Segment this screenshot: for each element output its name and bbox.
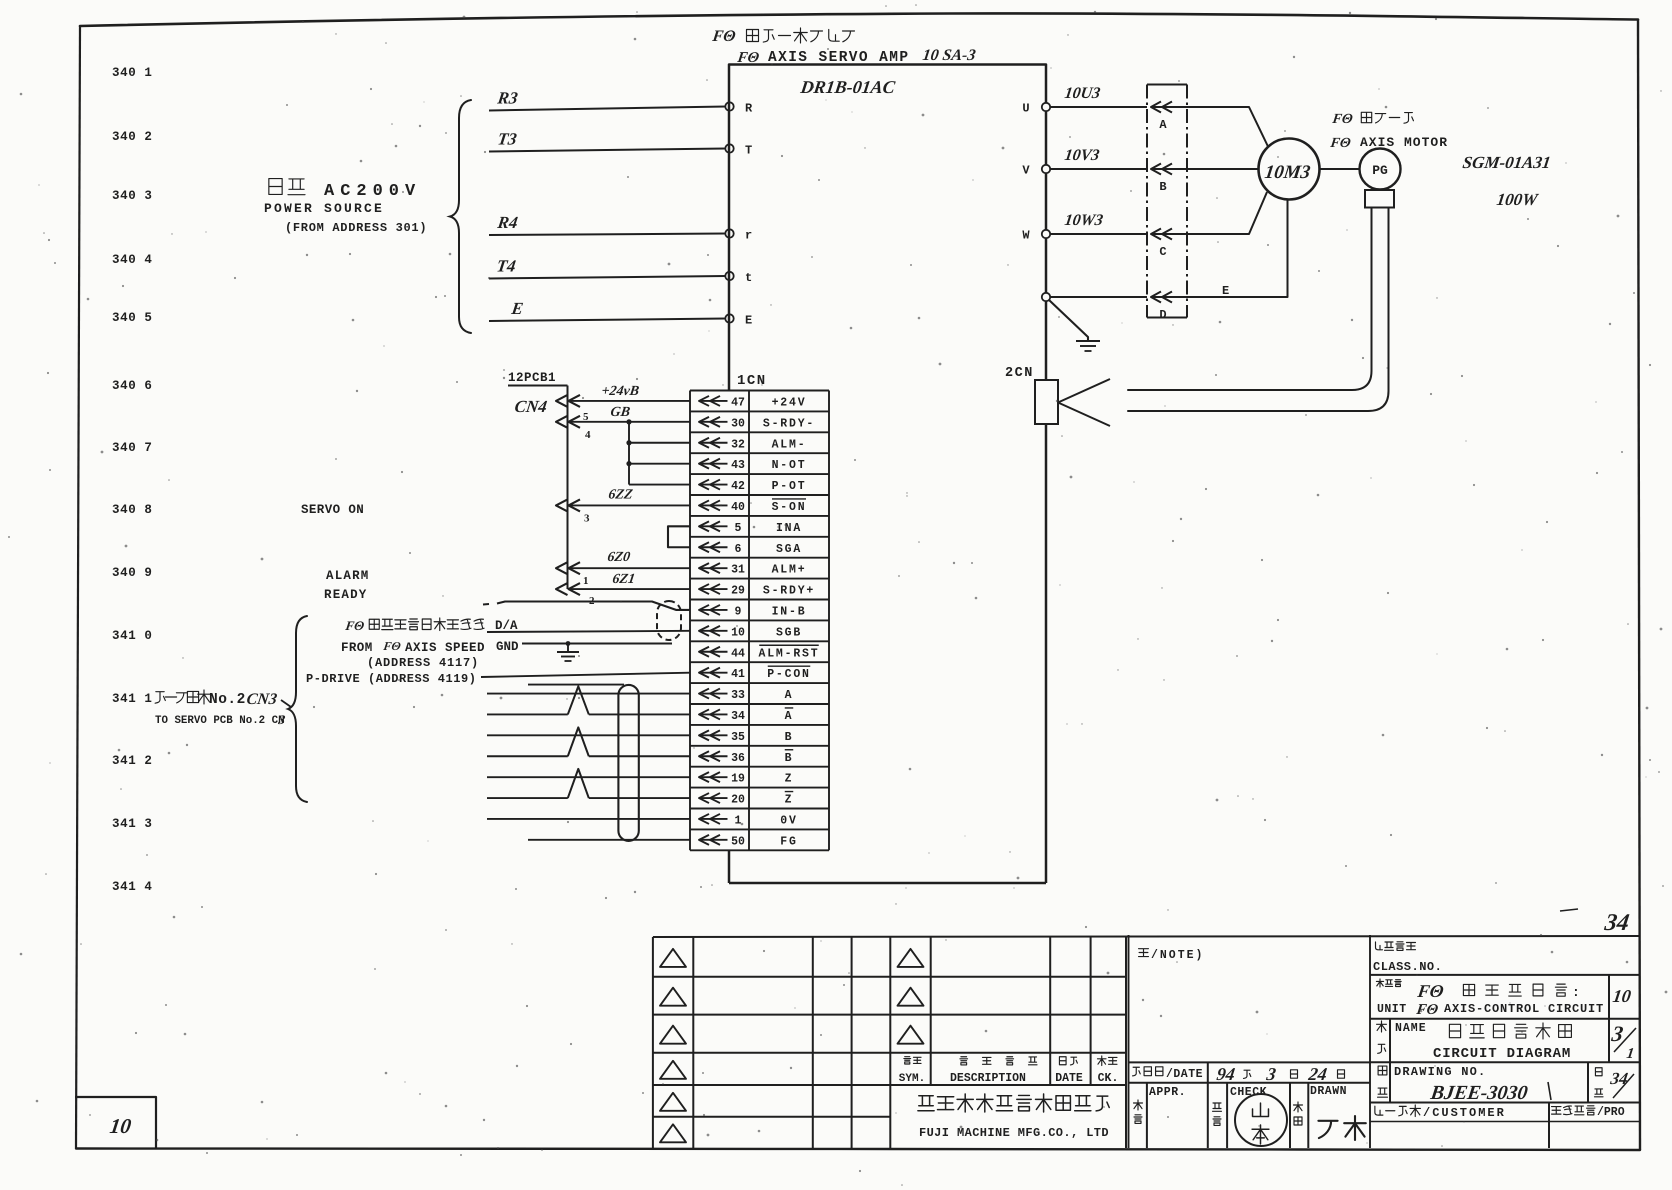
svg-text:/DATE: /DATE xyxy=(1166,1068,1203,1081)
wire 6ZZ to pin 40 S-ON xyxy=(569,504,690,506)
wire 10W3 xyxy=(1050,233,1147,235)
svg-text:SGA: SGA xyxy=(776,543,802,556)
svg-text:(FROM ADDRESS 301): (FROM ADDRESS 301) xyxy=(285,221,427,235)
svg-text:FΘ: FΘ xyxy=(1414,1002,1439,1018)
svg-text:TO SERVO PCB No.2 CN: TO SERVO PCB No.2 CN xyxy=(155,715,285,727)
svg-text:6ZZ: 6ZZ xyxy=(607,487,634,503)
svg-text:341 2: 341 2 xyxy=(112,754,153,768)
svg-text:FΘ: FΘ xyxy=(344,618,366,633)
svg-text:B: B xyxy=(1159,180,1166,194)
svg-text:FΘ: FΘ xyxy=(710,28,736,45)
svg-text:2CN: 2CN xyxy=(1005,366,1034,381)
1CN pin 47 +24V xyxy=(699,400,728,402)
svg-text:341 1: 341 1 xyxy=(112,692,153,706)
svg-text:IN-B: IN-B xyxy=(772,605,807,618)
svg-text:V: V xyxy=(1022,164,1030,178)
1CN pin 44 ALM-RST xyxy=(699,651,728,653)
wire R4 to terminal r xyxy=(489,234,726,236)
label to servo PCB No.2 CN3 xyxy=(155,692,165,703)
svg-text:100W: 100W xyxy=(1495,190,1540,209)
drawing frame border xyxy=(80,13,1638,26)
wire pin 36 xyxy=(487,755,568,757)
wire pin 20 xyxy=(487,797,568,799)
jumper INA to SGA xyxy=(668,526,690,547)
drawing no row xyxy=(1378,1066,1387,1075)
svg-text:P-CON: P-CON xyxy=(767,668,811,681)
connector pin C xyxy=(1151,229,1161,240)
svg-text:FUJI MACHINE MFG.CO., LTD: FUJI MACHINE MFG.CO., LTD xyxy=(919,1126,1109,1140)
svg-text:341 3: 341 3 xyxy=(112,817,153,831)
svg-text:4: 4 xyxy=(585,429,591,441)
svg-text:31: 31 xyxy=(731,564,745,577)
revision triangles xyxy=(660,949,686,967)
svg-text:10: 10 xyxy=(1611,986,1632,1006)
svg-text:1CN: 1CN xyxy=(737,373,767,389)
svg-text:24: 24 xyxy=(1306,1064,1328,1084)
svg-text:34: 34 xyxy=(1602,910,1631,936)
svg-text:READY: READY xyxy=(324,588,368,602)
signature Esaka xyxy=(1318,1121,1337,1138)
svg-text:DESCRIPTION: DESCRIPTION xyxy=(950,1072,1026,1085)
approval stamp Yamamoto xyxy=(1235,1094,1287,1146)
1CN pin 6 SGA xyxy=(699,546,728,548)
svg-text:340 5: 340 5 xyxy=(112,311,153,325)
wire to pin 42 P-OT xyxy=(629,484,690,486)
wire E to motor bottom xyxy=(1187,200,1288,297)
svg-text:12PCB1: 12PCB1 xyxy=(508,371,556,385)
wire E to terminal E xyxy=(489,319,726,322)
svg-text:BJEE-3030: BJEE-3030 xyxy=(1428,1082,1529,1104)
svg-text:ALARM: ALARM xyxy=(326,569,370,583)
svg-text:50: 50 xyxy=(731,835,745,848)
svg-text:A: A xyxy=(785,710,794,723)
cable shield oval xyxy=(618,685,638,841)
svg-text:340 6: 340 6 xyxy=(112,379,153,393)
wire B to motor xyxy=(1187,168,1259,170)
terminal R xyxy=(725,102,733,110)
svg-text:CIRCUIT DIAGRAM: CIRCUIT DIAGRAM xyxy=(1433,1046,1571,1062)
svg-text:FROM: FROM xyxy=(341,641,373,655)
wire 10U3 xyxy=(1050,106,1147,108)
svg-text:10: 10 xyxy=(108,1114,133,1138)
twisted pair marker (dashed) pins 9/10 xyxy=(657,601,681,640)
twisted pair hop 35/36 xyxy=(568,727,589,756)
svg-text:47: 47 xyxy=(731,396,745,409)
svg-text:CLASS.NO.: CLASS.NO. xyxy=(1373,960,1442,974)
svg-text:341 4: 341 4 xyxy=(112,880,153,894)
svg-text:FΘ: FΘ xyxy=(382,639,402,653)
brace speed command group xyxy=(288,616,307,802)
svg-text:5: 5 xyxy=(583,411,589,423)
svg-text:AC200V: AC200V xyxy=(324,182,421,201)
wire 6Z1 to pin 29 S-RDY+ xyxy=(569,588,690,590)
svg-text:340 4: 340 4 xyxy=(112,253,153,267)
1CN pin 35 B xyxy=(699,734,728,736)
svg-text:A: A xyxy=(785,689,794,702)
svg-text:APPR.: APPR. xyxy=(1149,1086,1186,1099)
wire A to motor xyxy=(1187,107,1268,147)
wire pin 50 FG (enters shield bottom) xyxy=(528,839,690,841)
svg-text:33: 33 xyxy=(731,689,745,702)
svg-text:34: 34 xyxy=(1608,1069,1629,1088)
1CN pin 50 FG xyxy=(699,839,728,841)
brace grouping power wires xyxy=(450,100,471,333)
twisted pair hop 19/20 xyxy=(568,769,589,798)
svg-text:AXIS-CONTROL CIRCUIT: AXIS-CONTROL CIRCUIT xyxy=(1444,1002,1604,1016)
svg-text:NAME: NAME xyxy=(1395,1022,1427,1035)
svg-text:Z: Z xyxy=(785,773,794,786)
svg-text:ALM-RST: ALM-RST xyxy=(759,647,820,660)
note box xyxy=(1128,935,1130,1148)
svg-text:E: E xyxy=(745,314,752,328)
svg-text:1: 1 xyxy=(583,575,589,587)
svg-text:10V3: 10V3 xyxy=(1063,147,1100,164)
terminal U output xyxy=(1042,103,1050,111)
svg-text:R4: R4 xyxy=(495,213,519,232)
wire 10V3 xyxy=(1050,168,1147,170)
1CN pin 1 0V xyxy=(699,818,728,820)
svg-text:D: D xyxy=(1159,308,1166,322)
svg-text:FΘ: FΘ xyxy=(1330,111,1354,127)
wire GND with ground xyxy=(522,643,672,645)
svg-text:43: 43 xyxy=(731,459,745,472)
svg-text:10W3: 10W3 xyxy=(1063,212,1104,229)
1CN pin 42 P-OT xyxy=(699,484,728,486)
1CN pin 20 Z xyxy=(699,797,728,799)
svg-text:INA: INA xyxy=(776,522,802,535)
svg-text:S-RDY+: S-RDY+ xyxy=(763,585,815,598)
sheet number box 10 xyxy=(75,1097,156,1148)
wire to pin 32 ALM- xyxy=(629,442,690,444)
svg-text:AXIS SERVO AMP: AXIS SERVO AMP xyxy=(768,50,909,66)
1CN pin 34 A xyxy=(699,713,728,715)
approval row xyxy=(1129,1082,1371,1084)
svg-text:D/A: D/A xyxy=(495,619,518,633)
svg-text:N-OT: N-OT xyxy=(772,459,807,472)
svg-text:5: 5 xyxy=(735,522,742,535)
svg-text:0V: 0V xyxy=(780,814,797,827)
junction branch to ALM-/N-OT/P-OT xyxy=(628,422,630,485)
terminal W output xyxy=(1042,230,1050,238)
title block: revision table xyxy=(653,936,1640,937)
connector pin A xyxy=(1151,102,1161,113)
encoder PG xyxy=(1320,168,1361,170)
svg-text:SERVO ON: SERVO ON xyxy=(301,503,364,517)
svg-text:P-DRIVE (ADDRESS 4119): P-DRIVE (ADDRESS 4119) xyxy=(306,672,477,686)
svg-text:340 3: 340 3 xyxy=(112,189,153,203)
svg-text:POWER SOURCE: POWER SOURCE xyxy=(264,201,384,216)
svg-text:DRAWING NO.: DRAWING NO. xyxy=(1394,1065,1486,1079)
wire pin 35 B xyxy=(487,734,690,736)
wire C to motor xyxy=(1187,192,1267,234)
svg-text:10U3: 10U3 xyxy=(1063,85,1101,102)
svg-text:+24vB: +24vB xyxy=(600,383,640,399)
label POWER SOURCE AC200V xyxy=(269,179,282,195)
motor 10M3 xyxy=(1259,139,1320,200)
date row xyxy=(1129,1061,1371,1063)
svg-text:341 0: 341 0 xyxy=(112,629,153,643)
ground symbol (signal) xyxy=(566,641,571,646)
svg-text:PG: PG xyxy=(1372,163,1388,178)
1CN pin 19 Z xyxy=(699,776,728,778)
servo amplifier box outline xyxy=(729,65,1046,391)
1CN pin 30 S-RDY- xyxy=(699,421,728,423)
svg-text:T: T xyxy=(745,144,752,158)
1CN pin 32 ALM- xyxy=(699,442,728,444)
wire IN-B (pin 9) xyxy=(483,603,489,606)
svg-text:19: 19 xyxy=(731,773,745,786)
svg-text:FG: FG xyxy=(780,835,797,848)
wire T4 to terminal t xyxy=(489,276,726,279)
svg-text:FΘ: FΘ xyxy=(1415,981,1445,1001)
svg-text:T3: T3 xyxy=(496,130,518,149)
class no row xyxy=(1376,942,1383,950)
name row xyxy=(1389,1019,1391,1103)
unit row xyxy=(1376,979,1383,987)
terminal t xyxy=(725,272,733,280)
svg-text:10M3: 10M3 xyxy=(1263,162,1312,183)
svg-text:CN4: CN4 xyxy=(513,397,548,416)
svg-text:32: 32 xyxy=(731,438,745,451)
svg-text:340 8: 340 8 xyxy=(112,503,153,517)
connector pin D xyxy=(1151,292,1161,303)
svg-text:CK.: CK. xyxy=(1098,1072,1119,1085)
svg-text:36: 36 xyxy=(731,752,745,765)
wire pin 1 0V xyxy=(487,818,690,820)
1CN pin 43 N-OT xyxy=(699,463,728,465)
svg-text:40: 40 xyxy=(731,501,745,514)
svg-text:3: 3 xyxy=(584,512,590,524)
svg-text:/CUSTOMER: /CUSTOMER xyxy=(1423,1106,1506,1120)
svg-text:340 1: 340 1 xyxy=(112,66,153,80)
cable arrow into 2CN xyxy=(1058,379,1110,426)
svg-text:/PRO: /PRO xyxy=(1597,1106,1625,1119)
svg-text:29: 29 xyxy=(731,585,745,598)
encoder cable to 2CN xyxy=(1128,208,1372,391)
terminal E(motor) output xyxy=(1042,293,1050,301)
revision header SYM/DESCRIPTION/DATE/CK xyxy=(904,1057,911,1064)
1CN pin 9 IN-B xyxy=(699,609,728,611)
svg-text:R3: R3 xyxy=(495,89,519,108)
right title section xyxy=(1369,935,1371,1148)
svg-text:6Z1: 6Z1 xyxy=(611,571,636,587)
svg-text:B: B xyxy=(785,731,794,744)
svg-text:ALM+: ALM+ xyxy=(772,564,807,577)
terminal E xyxy=(725,314,733,322)
svg-text:30: 30 xyxy=(731,417,745,430)
svg-text:10 SA-3: 10 SA-3 xyxy=(921,47,976,64)
svg-text:94: 94 xyxy=(1215,1064,1236,1084)
svg-text:340 7: 340 7 xyxy=(112,441,153,455)
wire pin 19 Z xyxy=(487,776,690,778)
svg-text:P-OT: P-OT xyxy=(772,480,807,493)
svg-text:R: R xyxy=(745,102,753,116)
svg-text:SGM-01A31: SGM-01A31 xyxy=(1461,153,1551,172)
wire pin 34 xyxy=(487,713,568,715)
customer row xyxy=(1375,1106,1383,1115)
svg-text:1: 1 xyxy=(735,814,742,827)
svg-text:E: E xyxy=(1222,284,1229,298)
wire +24VB to pin 47 xyxy=(569,400,690,402)
wire GB to pin 30 xyxy=(569,421,690,423)
wire 6Z0 to pin 31 ALM+ xyxy=(569,567,690,569)
terminal T xyxy=(725,144,733,152)
svg-text:No.2: No.2 xyxy=(209,692,246,708)
svg-text:U: U xyxy=(1022,102,1029,116)
svg-text:SYM.: SYM. xyxy=(899,1073,925,1085)
1CN pin 29 S-RDY+ xyxy=(699,588,728,590)
wire R3 to terminal R xyxy=(489,107,726,111)
svg-text:35: 35 xyxy=(731,731,745,744)
svg-text:A: A xyxy=(1159,118,1167,132)
motor cable connector (dashed) xyxy=(1147,84,1187,86)
svg-text:S-ON: S-ON xyxy=(772,501,807,514)
wire P-DRIVE to pin 41 P-CON xyxy=(481,673,690,677)
svg-text:t: t xyxy=(745,271,752,285)
1CN pin 36 B xyxy=(699,755,728,757)
wire D/A to pin 10 SGB xyxy=(487,631,690,632)
svg-text:GB: GB xyxy=(609,404,631,420)
svg-text:20: 20 xyxy=(731,794,745,807)
svg-text:44: 44 xyxy=(731,647,745,660)
svg-text:GND: GND xyxy=(496,640,519,654)
svg-text:AXIS MOTOR: AXIS MOTOR xyxy=(1360,135,1448,150)
svg-text:r: r xyxy=(745,229,752,243)
svg-text:T4: T4 xyxy=(495,257,517,276)
svg-text:AXIS SPEED: AXIS SPEED xyxy=(405,641,485,655)
1CN pin 33 A xyxy=(699,693,728,695)
svg-text:ALM-: ALM- xyxy=(772,438,807,451)
company name Fuji Machine xyxy=(918,1096,934,1111)
svg-text:W: W xyxy=(1022,229,1030,243)
svg-text:(ADDRESS 4117): (ADDRESS 4117) xyxy=(367,656,479,670)
svg-text:6: 6 xyxy=(735,543,742,556)
svg-text:DRAWN: DRAWN xyxy=(1310,1085,1347,1098)
svg-text:C: C xyxy=(1159,245,1166,259)
svg-text::: : xyxy=(1572,985,1580,1000)
1CN pin 5 INA xyxy=(699,525,728,527)
ground at output E terminal xyxy=(1049,300,1088,341)
svg-text:10: 10 xyxy=(731,626,745,639)
terminal V output xyxy=(1042,165,1050,173)
svg-text:CN3: CN3 xyxy=(245,691,278,708)
wire T3 to terminal T xyxy=(489,149,726,152)
svg-text:340 9: 340 9 xyxy=(112,566,153,580)
svg-text:42: 42 xyxy=(731,480,745,493)
svg-text:6Z0: 6Z0 xyxy=(606,549,631,565)
wire pin 33 A (enters shield top) xyxy=(528,684,624,686)
twisted pair hop 33/34 xyxy=(568,686,589,714)
1CN pin 40 S-ON xyxy=(699,504,728,506)
svg-text:41: 41 xyxy=(731,668,745,681)
terminal r xyxy=(725,229,733,237)
1CN pin 41 P-CON xyxy=(699,672,728,674)
connector pin B xyxy=(1151,164,1161,175)
svg-text:FΘ: FΘ xyxy=(735,50,760,66)
svg-text:34: 34 xyxy=(731,710,745,723)
svg-text:SGB: SGB xyxy=(776,626,802,639)
svg-text:9: 9 xyxy=(735,605,742,618)
svg-text:340 2: 340 2 xyxy=(112,130,153,144)
svg-text:+24V: +24V xyxy=(772,396,807,409)
1CN pin 31 ALM+ xyxy=(699,567,728,569)
svg-text:FΘ: FΘ xyxy=(1328,135,1352,151)
1CN pin 10 SGB xyxy=(699,630,728,632)
svg-text:UNIT: UNIT xyxy=(1377,1003,1407,1016)
wire to pin 43 N-OT xyxy=(629,463,690,465)
svg-text:S-RDY-: S-RDY- xyxy=(763,417,815,430)
svg-text:Z: Z xyxy=(785,794,794,807)
svg-text:DATE: DATE xyxy=(1055,1072,1083,1085)
svg-text:B: B xyxy=(785,752,794,765)
svg-text:/NOTE): /NOTE) xyxy=(1151,949,1204,962)
